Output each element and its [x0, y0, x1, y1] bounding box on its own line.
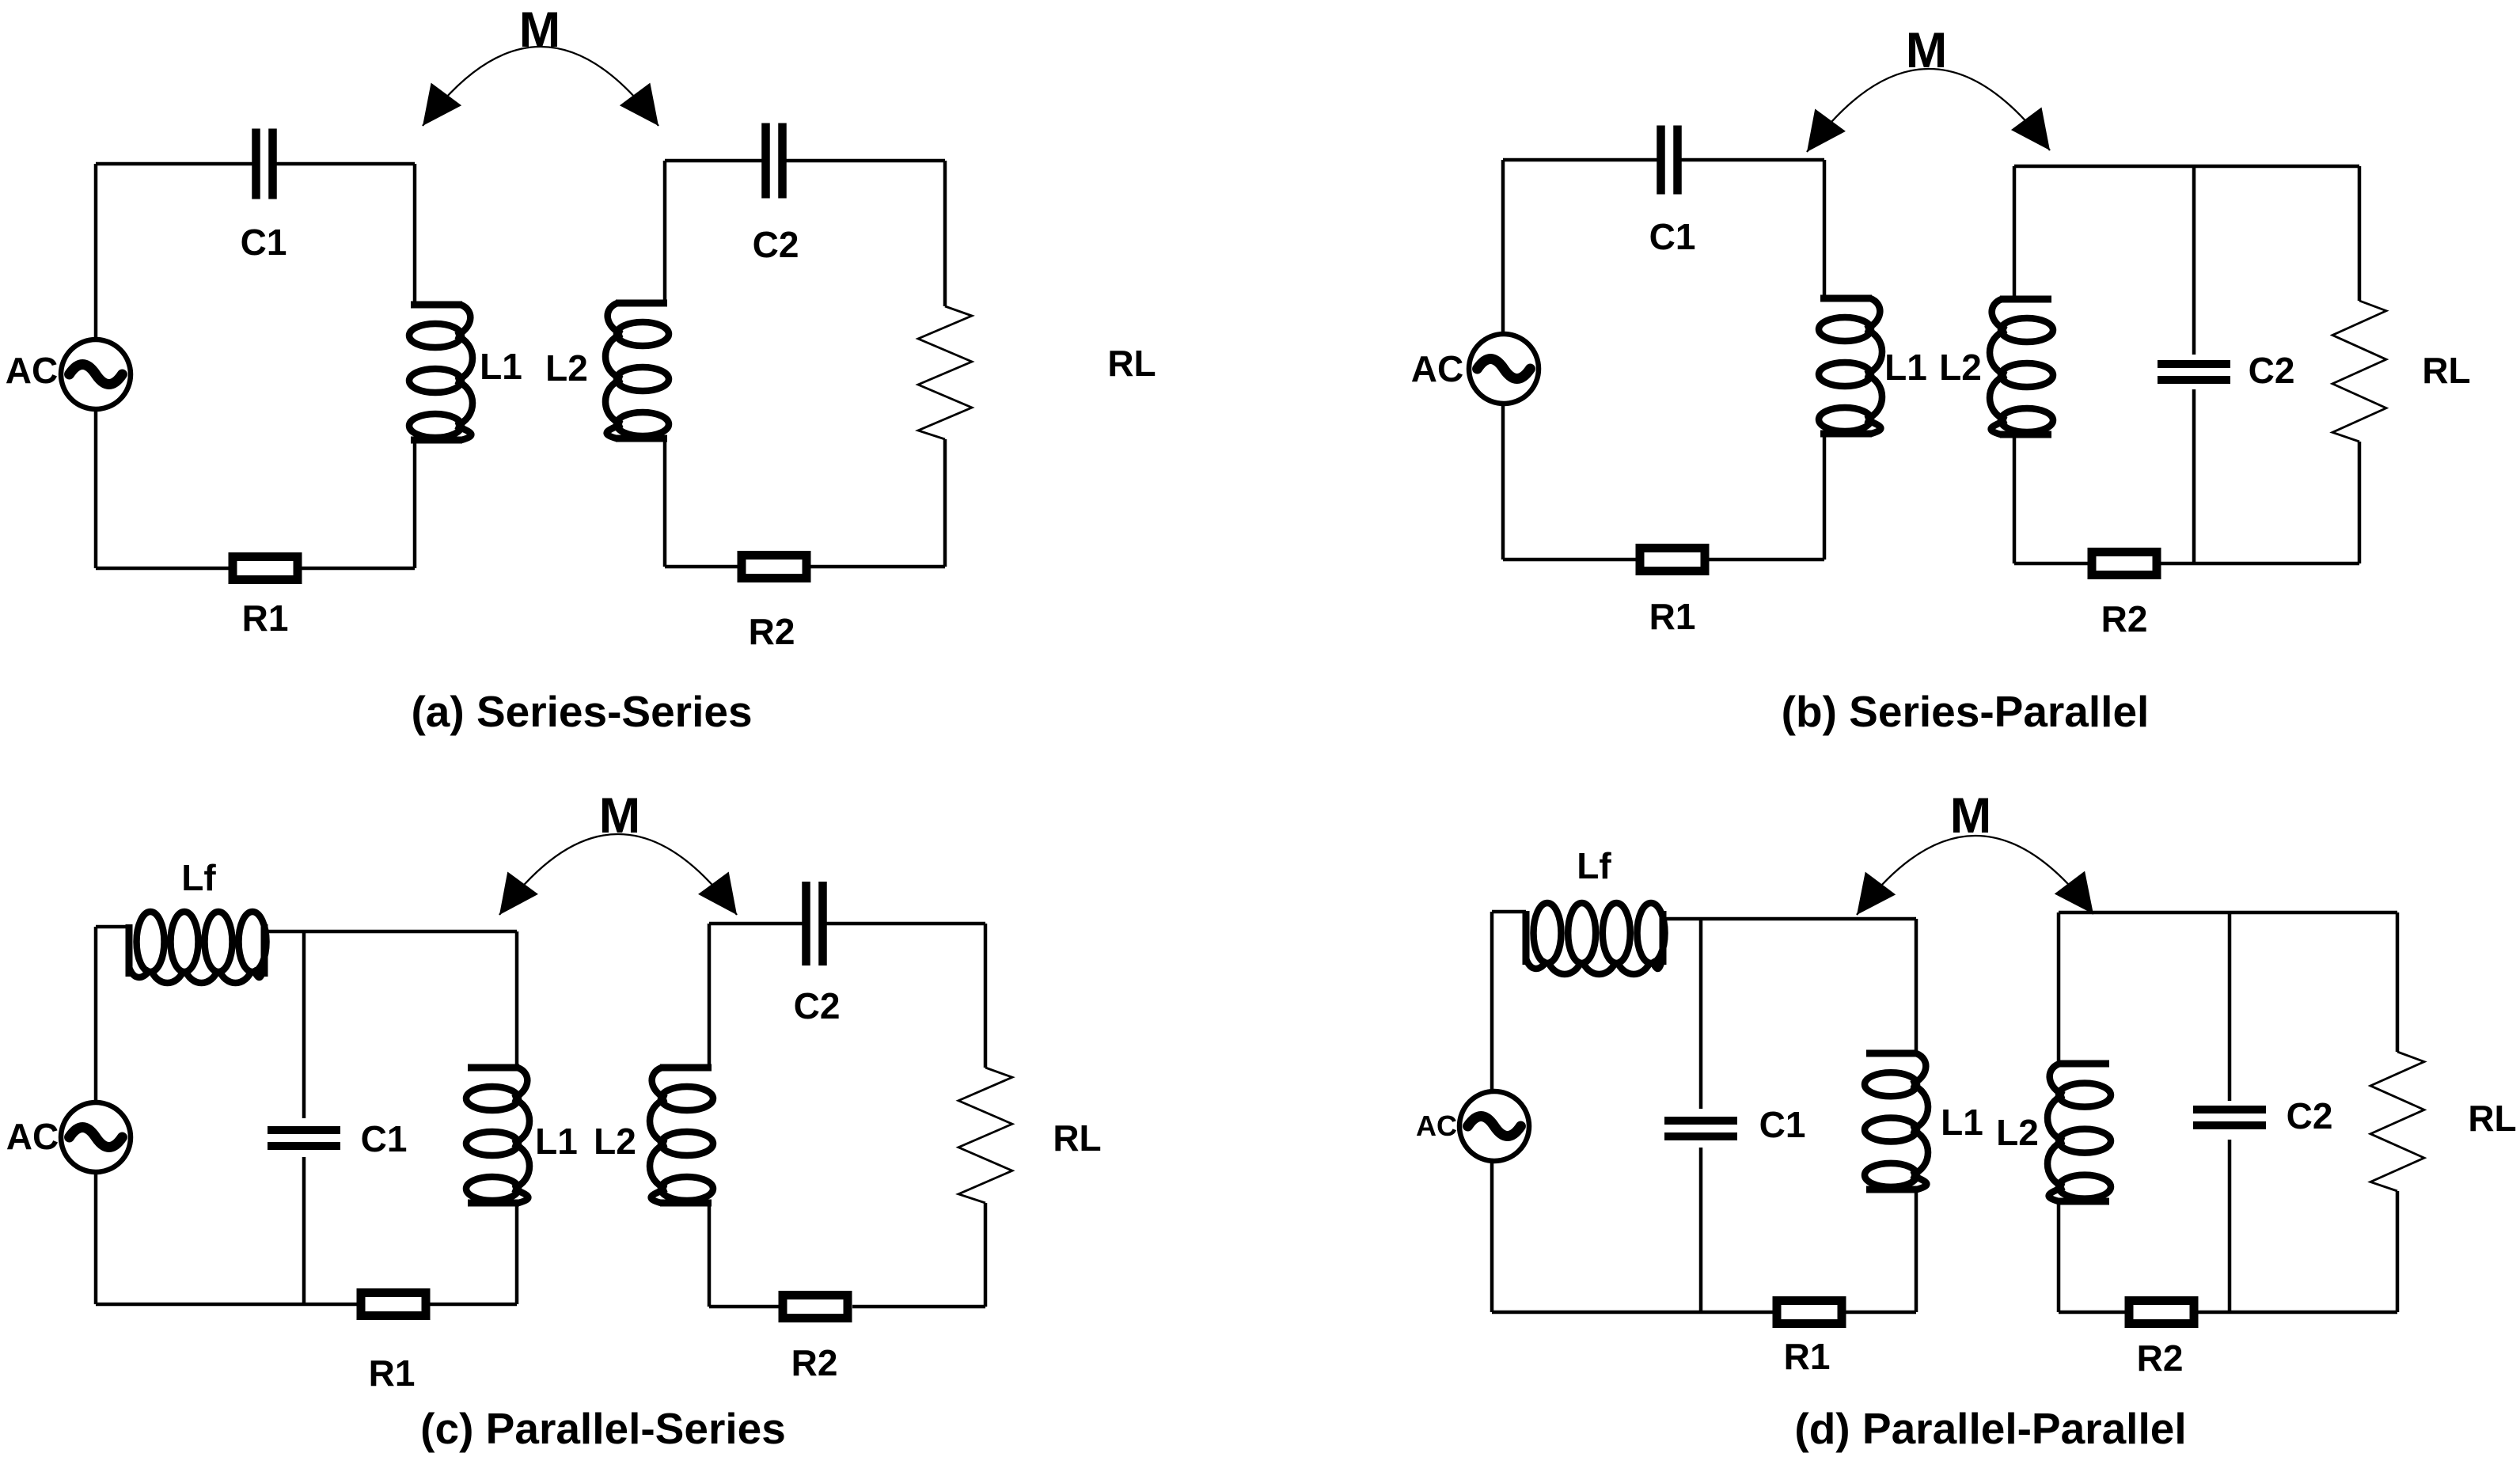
svg-text:R2: R2: [749, 611, 795, 652]
svg-text:AC: AC: [1411, 348, 1463, 389]
capacitor C1: [241, 129, 287, 264]
caption (a): [411, 687, 752, 736]
mutual inductance M: [1857, 788, 2093, 915]
svg-text:M: M: [1906, 23, 1947, 78]
svg-text:Lf: Lf: [181, 857, 216, 898]
svg-text:C2: C2: [794, 985, 841, 1026]
svg-text:L2: L2: [1939, 347, 1982, 388]
resistor R1: [1640, 548, 1705, 638]
wire: [2014, 166, 2359, 563]
mutual inductance M: [499, 788, 737, 915]
svg-text:L1: L1: [480, 346, 522, 387]
svg-text:AC: AC: [6, 350, 58, 391]
inductor Lf: [129, 857, 267, 983]
inductor Lf: [1526, 845, 1665, 974]
wire: [2059, 912, 2397, 1312]
resistor R2: [783, 1296, 848, 1384]
capacitor C2: [2193, 1095, 2332, 1136]
resistor R2: [2129, 1301, 2194, 1379]
svg-text:RL: RL: [1107, 343, 1156, 384]
wire: [1492, 912, 1916, 1312]
svg-text:RL: RL: [1053, 1117, 1101, 1159]
svg-text:AC: AC: [6, 1116, 59, 1157]
wire: [1503, 160, 1824, 560]
inductor L2: [545, 303, 669, 438]
capacitor C2: [753, 123, 799, 266]
AC source: [6, 1102, 131, 1172]
svg-text:L2: L2: [594, 1121, 636, 1162]
inductor L2: [1996, 1064, 2111, 1201]
mutual inductance M: [1807, 23, 2050, 152]
caption (c): [420, 1404, 786, 1453]
svg-text:R2: R2: [791, 1342, 838, 1383]
svg-text:C2: C2: [753, 224, 799, 265]
svg-text:C1: C1: [361, 1118, 408, 1159]
inductor L1: [466, 1068, 578, 1203]
resistor RL: [2370, 1052, 2517, 1191]
inductor L1: [1865, 1053, 1983, 1189]
resistor RL: [918, 306, 1156, 439]
svg-text:R1: R1: [1784, 1336, 1831, 1377]
AC source: [1411, 334, 1539, 404]
resistor RL: [2332, 301, 2471, 442]
svg-text:AC: AC: [1416, 1110, 1457, 1142]
mutual inductance M: [423, 2, 658, 126]
svg-text:L2: L2: [1996, 1112, 2039, 1153]
svg-text:R1: R1: [242, 598, 289, 639]
svg-text:(d) Parallel-Parallel: (d) Parallel-Parallel: [1794, 1404, 2186, 1453]
svg-text:(a) Series-Series: (a) Series-Series: [411, 687, 752, 736]
svg-text:M: M: [1950, 788, 1991, 844]
wire: [96, 927, 517, 1304]
capacitor C2: [2158, 350, 2294, 391]
capacitor C1: [268, 1118, 407, 1159]
resistor R1: [1777, 1301, 1842, 1378]
resistor R2: [742, 556, 806, 653]
svg-text:M: M: [519, 2, 560, 58]
inductor L2: [1939, 299, 2053, 434]
inductor L1: [1819, 298, 1927, 434]
svg-text:C2: C2: [2287, 1095, 2333, 1136]
svg-text:L1: L1: [1941, 1102, 1983, 1143]
svg-text:L1: L1: [1884, 347, 1927, 388]
capacitor C1: [1649, 126, 1696, 258]
wire: [96, 164, 415, 568]
svg-text:M: M: [599, 788, 640, 844]
resistor R2: [2092, 552, 2157, 640]
svg-text:R1: R1: [369, 1352, 416, 1394]
caption (d): [1794, 1404, 2186, 1453]
svg-text:C1: C1: [1649, 216, 1696, 257]
capacitor C1: [1664, 1104, 1805, 1145]
resistor RL: [958, 1068, 1102, 1203]
AC source: [1416, 1091, 1529, 1161]
wire: [665, 161, 945, 567]
svg-text:(c) Parallel-Series: (c) Parallel-Series: [420, 1404, 786, 1453]
svg-text:C2: C2: [2249, 350, 2295, 391]
caption (b): [1782, 687, 2150, 736]
svg-text:R1: R1: [1649, 596, 1696, 637]
svg-text:C1: C1: [1759, 1104, 1806, 1145]
svg-text:(b) Series-Parallel: (b) Series-Parallel: [1782, 687, 2150, 736]
capacitor C2: [794, 882, 841, 1026]
svg-text:C1: C1: [241, 222, 287, 263]
svg-text:L2: L2: [545, 347, 588, 389]
inductor L1: [409, 305, 522, 440]
svg-text:R2: R2: [2137, 1337, 2184, 1379]
wire: [709, 924, 985, 1307]
AC source: [6, 340, 131, 409]
svg-text:Lf: Lf: [1577, 845, 1611, 886]
svg-text:R2: R2: [2101, 598, 2148, 639]
svg-text:RL: RL: [2422, 350, 2470, 391]
svg-text:L1: L1: [535, 1121, 578, 1162]
resistor R1: [233, 557, 298, 639]
svg-text:RL: RL: [2468, 1098, 2516, 1139]
inductor L2: [594, 1068, 713, 1203]
resistor R1: [361, 1293, 426, 1394]
